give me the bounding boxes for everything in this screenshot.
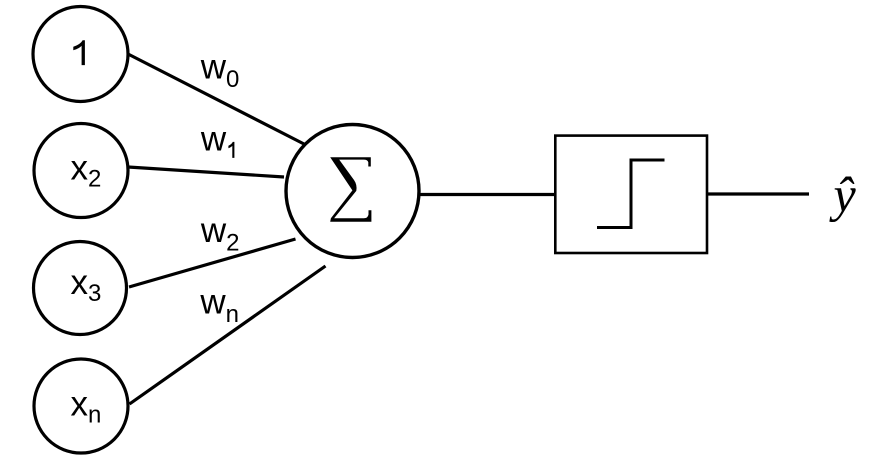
wire wn: xn node to summer [130, 266, 326, 404]
wire w2: x3 node to summer [129, 239, 296, 287]
activation box [555, 136, 707, 253]
step function symbol [597, 160, 665, 228]
svg-text:wn: wn [199, 283, 239, 329]
svg-text:w: w [200, 119, 227, 158]
node x3 circle [34, 242, 127, 335]
wire: activation box to output [707, 192, 809, 195]
svg-text:ŷ: ŷ [829, 167, 857, 223]
label 1 [73, 40, 85, 65]
node bias circle [33, 7, 128, 102]
node xn circle [34, 359, 128, 453]
wire w1: x2 node to summer [128, 167, 284, 177]
wire w0: bias node to summer [128, 54, 304, 144]
wire: summer to activation box [419, 193, 555, 196]
label sigma [330, 157, 371, 222]
node x2 circle [34, 124, 128, 218]
svg-text:w0: w0 [200, 47, 240, 93]
svg-text:w2: w2 [200, 211, 240, 257]
summer circle U1 [286, 125, 419, 258]
